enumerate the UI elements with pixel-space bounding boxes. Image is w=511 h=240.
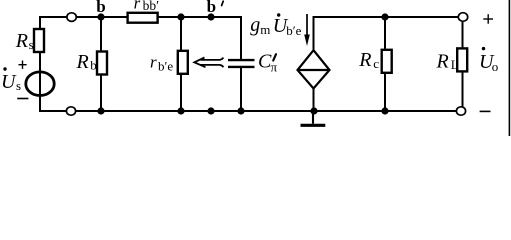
svg-text:s: s xyxy=(16,78,21,93)
resistor R_L xyxy=(457,48,467,71)
node: capacitor bottom dot xyxy=(237,107,244,114)
svg-text:π: π xyxy=(271,60,278,75)
node: r_b'e top dot xyxy=(177,13,184,20)
arrow (Miller equivalence, points left at r_b'e) xyxy=(194,58,223,68)
terminal circle top-left xyxy=(67,13,76,22)
svg-text:R: R xyxy=(358,49,371,71)
node: source bottom dot xyxy=(310,107,317,114)
svg-text:b: b xyxy=(90,58,97,73)
svg-text:b: b xyxy=(207,0,216,16)
wire: R_L branch xyxy=(462,17,464,111)
svg-text:L: L xyxy=(451,57,459,72)
svg-text:m: m xyxy=(260,22,270,37)
terminal circle bottom-right xyxy=(456,107,465,115)
current direction arrow (down) xyxy=(306,14,308,37)
svg-text:U: U xyxy=(1,71,17,93)
wire: dependent source branch lower xyxy=(313,88,315,111)
svg-text:b: b xyxy=(96,0,105,16)
source U_s circle xyxy=(26,72,54,96)
wire: capacitor branch upper xyxy=(240,16,242,60)
node: r_b'e bottom dot xyxy=(177,107,184,114)
wire: r_b'e branch xyxy=(180,17,182,111)
node: R_c bottom dot xyxy=(381,107,388,114)
svg-text:r: r xyxy=(150,53,157,72)
capacitor C'_pi plates xyxy=(228,59,255,61)
node: R_b bottom dot xyxy=(97,107,104,114)
resistor R_c xyxy=(382,50,392,73)
svg-text:o: o xyxy=(492,59,499,74)
svg-text:b′e: b′e xyxy=(286,23,301,38)
table cell right border xyxy=(508,0,510,136)
wire: R_c branch xyxy=(384,17,386,111)
minus sign left xyxy=(17,98,28,100)
svg-text:R: R xyxy=(76,51,89,73)
terminal circle top-right xyxy=(458,13,467,22)
svg-text:r: r xyxy=(134,0,141,13)
svg-text:s: s xyxy=(29,37,34,52)
plus sign right xyxy=(483,18,493,20)
wire: top rail left segment (b side) xyxy=(40,16,241,18)
svg-text:c: c xyxy=(373,56,379,71)
svg-text:R: R xyxy=(436,51,449,73)
minus sign right xyxy=(480,110,491,112)
svg-text:g: g xyxy=(250,14,260,36)
node: R_c top dot xyxy=(381,13,388,20)
node b dot xyxy=(97,13,104,20)
node b' mirror dot (bottom) xyxy=(207,107,214,114)
resistor R_s xyxy=(34,29,44,52)
dependent current source g_m U_b'e (diamond) xyxy=(298,50,330,88)
wire: left source branch vertical xyxy=(39,16,41,112)
wire: top rail right segment (collector side) xyxy=(314,16,464,18)
plus sign left xyxy=(19,64,27,66)
wire: dependent source branch upper xyxy=(313,16,315,51)
svg-text:R: R xyxy=(15,30,28,52)
wire: R_b branch xyxy=(100,17,102,111)
resistor r_bb' (horizontal) xyxy=(128,13,158,23)
ground xyxy=(312,111,314,124)
svg-text:bb′: bb′ xyxy=(143,0,160,13)
node b' dot (top) xyxy=(207,13,214,20)
resistor r_b'e xyxy=(178,51,188,74)
resistor R_b xyxy=(97,52,107,75)
wire: bottom rail xyxy=(40,110,461,112)
terminal circle bottom-left xyxy=(66,107,75,115)
svg-text:b′e: b′e xyxy=(158,59,173,74)
wire: capacitor branch lower xyxy=(240,67,242,111)
